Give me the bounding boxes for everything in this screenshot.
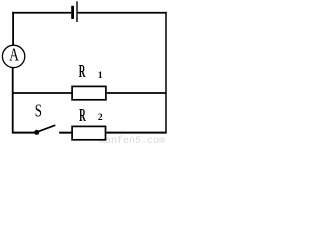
battery cell: short thick plate [71, 6, 74, 19]
wire: bottom wire, left corner to switch dot [12, 132, 37, 134]
wire: left vertical, ammeter to bottom corner [12, 67, 14, 133]
ammeter circle [2, 45, 24, 67]
switch pivot dot [34, 130, 39, 135]
svg-text:2: 2 [98, 113, 103, 123]
wire: R1 right lead [107, 92, 167, 94]
wire: top wire left segment (battery left lead) [12, 12, 71, 14]
wire: right vertical [165, 12, 167, 134]
svg-text:S: S [35, 101, 42, 121]
svg-text:A: A [9, 45, 19, 65]
resistor R2 box [72, 126, 105, 139]
switch blade (open) [38, 125, 56, 132]
resistor R1 box [72, 86, 106, 99]
svg-text:R: R [79, 105, 86, 125]
svg-text:R: R [79, 61, 86, 81]
wire: R1 branch left lead [12, 92, 71, 94]
wire: switch right terminal to R2 [59, 132, 72, 134]
battery cell: long thin plate [76, 1, 78, 22]
wire: top wire right segment (battery right lead) [77, 12, 167, 14]
svg-text:manfen5.com: manfen5.com [99, 135, 165, 144]
svg-text:1: 1 [98, 71, 103, 81]
wire: R2 right lead to right vertical [106, 132, 166, 134]
wire: left vertical, top corner to ammeter [12, 12, 14, 46]
